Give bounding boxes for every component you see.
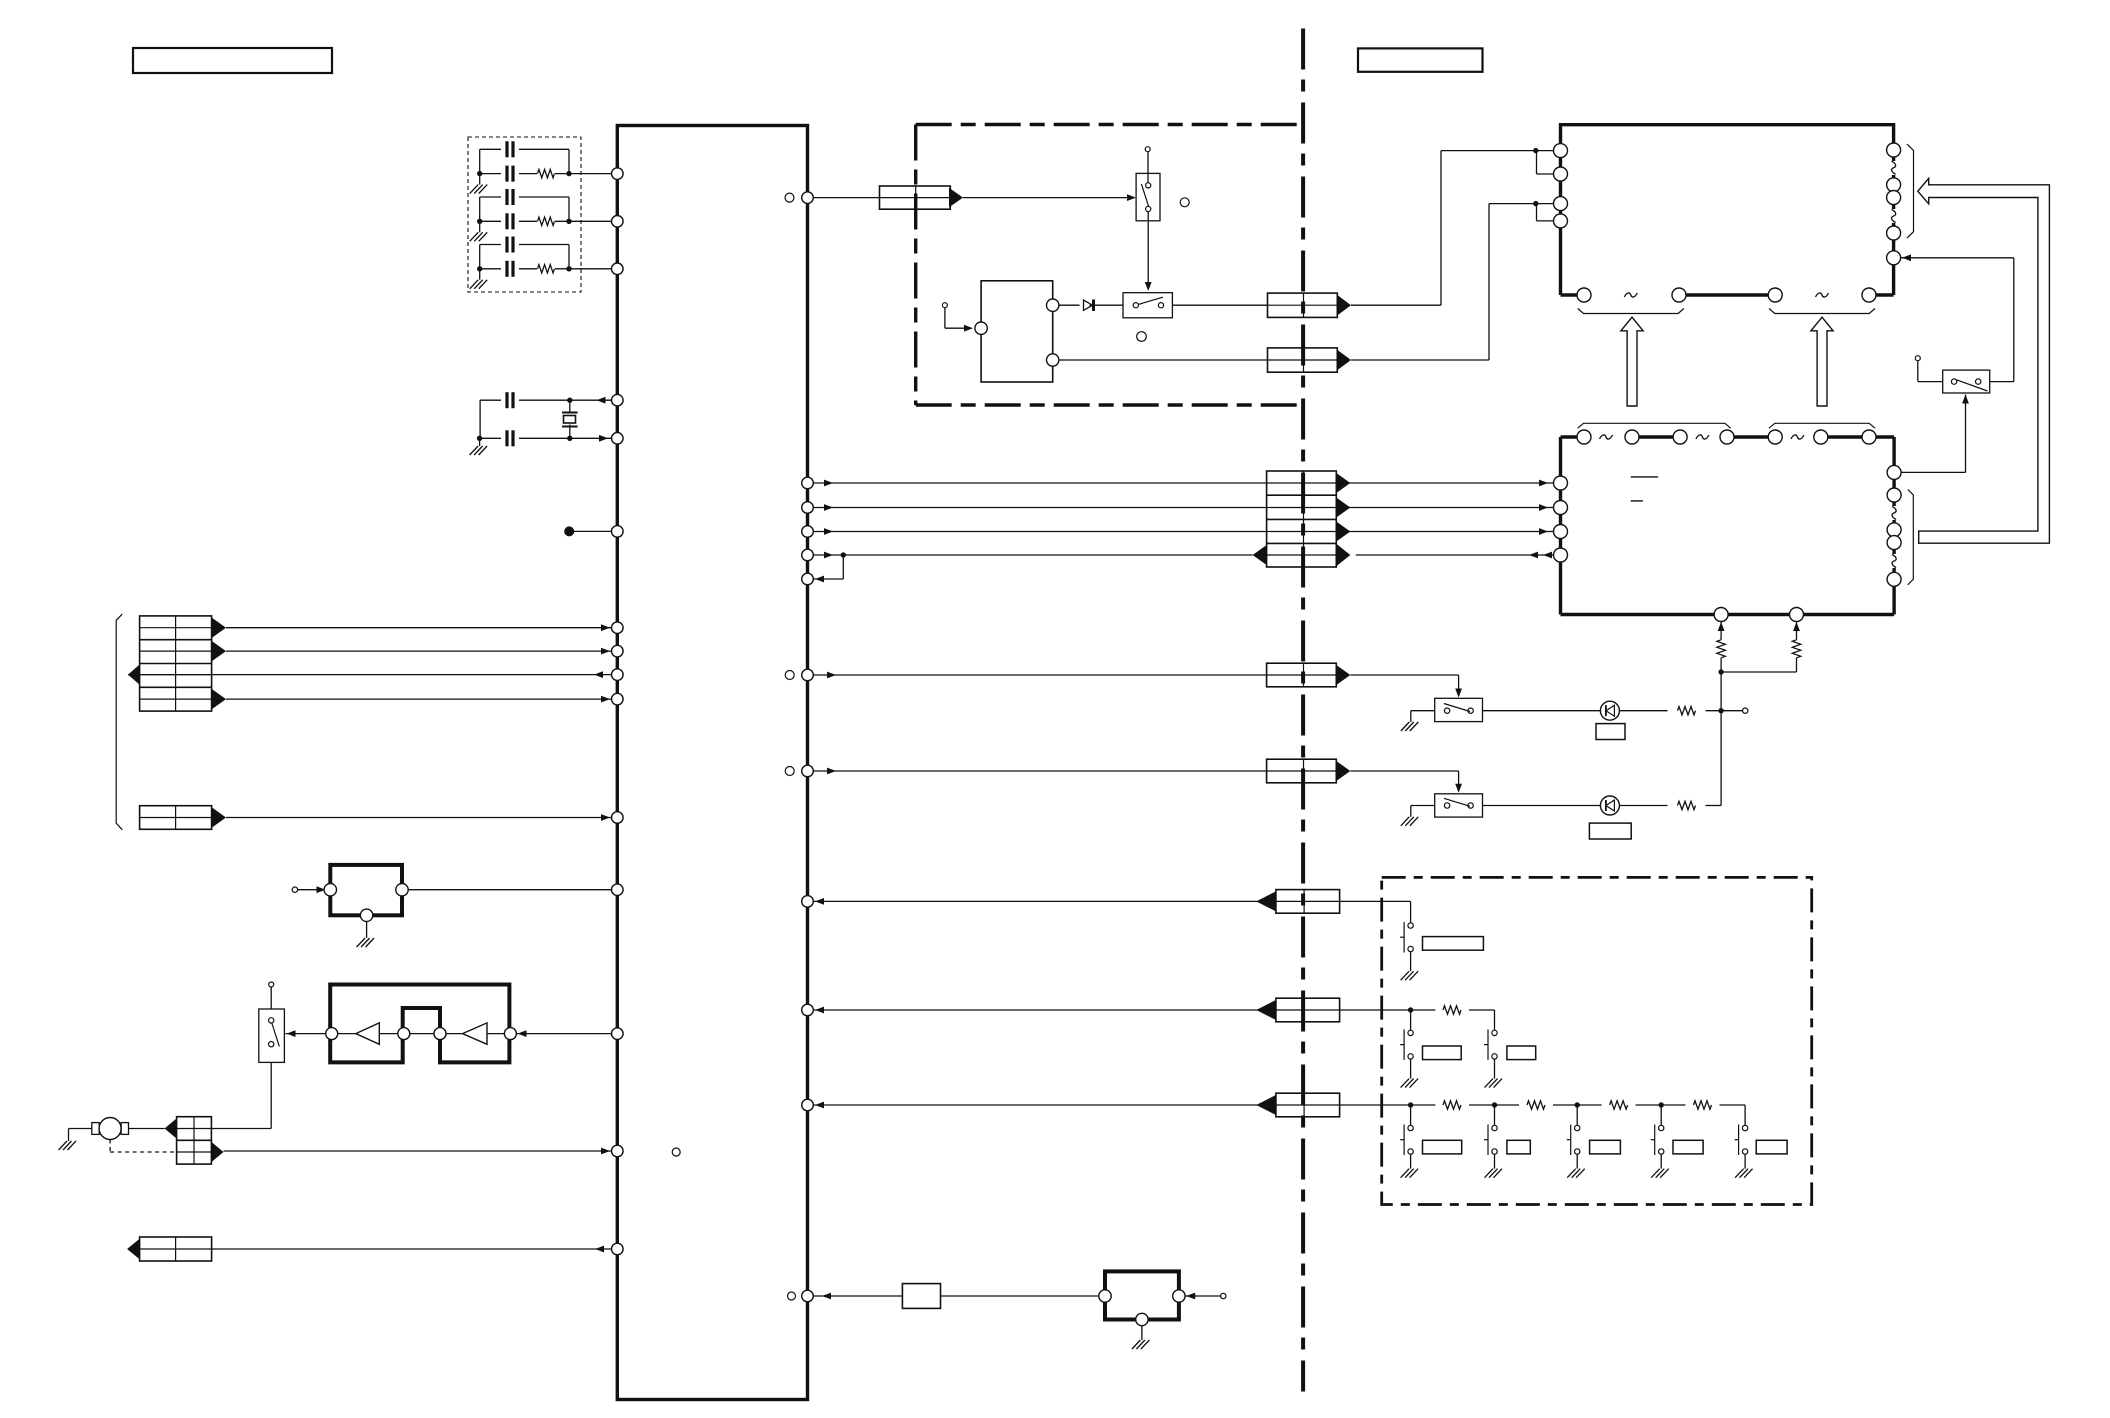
wire cn1d xyxy=(226,698,611,700)
connector CN1 row3 line xyxy=(140,674,212,676)
wire swA2 xyxy=(963,197,1134,199)
ground xtal xyxy=(470,446,479,455)
wire bz3 xyxy=(1185,1295,1221,1297)
wire S1 top xyxy=(270,987,272,1009)
resistor R2 xyxy=(538,217,555,225)
switch SW4 box xyxy=(1435,698,1483,721)
wire keyC3 gnd xyxy=(1576,1154,1578,1169)
terminal S1 xyxy=(269,982,274,987)
tilde dsp2 r2 xyxy=(1892,555,1896,568)
connector CN7 xyxy=(1268,348,1338,372)
label LED2 xyxy=(1589,823,1631,839)
bracket dsp2 top2 xyxy=(1769,423,1875,428)
connector CN1 tri4 xyxy=(212,689,226,709)
reset pin in xyxy=(324,884,336,896)
reset pin gnd xyxy=(360,909,372,921)
label SC2 xyxy=(1507,1140,1530,1154)
display DSP2 pin bb xyxy=(1790,608,1804,622)
wire sw5 gnd xyxy=(1411,805,1435,807)
wire disp1 b xyxy=(1351,359,1489,361)
hollow arrow band xyxy=(1918,178,2050,543)
connector CN8 tri2 xyxy=(1336,498,1350,518)
ground buzzer xyxy=(1132,1340,1141,1349)
connector CN8 tri3 xyxy=(1336,522,1350,542)
terminal sw3 xyxy=(1915,356,1920,361)
switch SW2 box xyxy=(1123,293,1172,318)
driver pin 3 xyxy=(434,1028,446,1040)
display DSP1 pin rb xyxy=(1887,178,1901,192)
display DSP2 pin t1 xyxy=(1577,430,1591,444)
MCU pin keyB xyxy=(802,1004,814,1016)
wire cn3 row1 to S1 xyxy=(211,1128,271,1130)
display DSP1 pin rd xyxy=(1887,226,1901,240)
display DSP2 pin t6 xyxy=(1814,430,1828,444)
bracket dsp2 right xyxy=(1908,490,1914,585)
switch SW3 contacts xyxy=(1951,379,1956,384)
label SC4 xyxy=(1673,1140,1703,1154)
ground rc1 xyxy=(470,185,479,194)
wire dsp1 re xyxy=(1901,257,2014,259)
relay pin o1 xyxy=(1047,299,1059,311)
wire sw5 out xyxy=(1483,805,1601,807)
tilde dsp1 r1 xyxy=(1892,161,1896,174)
MCU pin cn1-1 xyxy=(612,622,624,634)
keypad dashdot box xyxy=(1382,877,1812,1204)
wire keyC4 gnd xyxy=(1660,1154,1662,1169)
MCU U1 box xyxy=(617,126,807,1400)
capacitor C5 xyxy=(505,237,508,253)
connector CN8 tri4 xyxy=(1336,544,1350,567)
MCU pin cn2 xyxy=(612,812,624,824)
mcu inner circle s1 xyxy=(785,671,794,680)
ground sw4 xyxy=(1401,722,1410,731)
switch SW5 contacts xyxy=(1444,803,1449,808)
connector CN9 xyxy=(1267,663,1337,687)
MCU pin swrow2 xyxy=(802,765,814,777)
wire bl res1 xyxy=(1720,621,1722,640)
ground keyC3 xyxy=(1567,1169,1576,1178)
tilde dsp2 t3 xyxy=(1791,435,1804,439)
connector CN3 row2 xyxy=(177,1151,212,1153)
mcu inner circle a xyxy=(785,193,794,202)
crystal X1 xyxy=(562,412,578,414)
terminal reset xyxy=(292,887,297,892)
MCU pin lcd4 xyxy=(802,549,814,561)
connector CN10 xyxy=(1267,759,1337,783)
wire relay o1 xyxy=(1059,304,1080,306)
wire keyA b xyxy=(1340,900,1411,902)
label box xyxy=(1358,48,1483,71)
bracket dsp1 right xyxy=(1907,144,1914,238)
key SB2 xyxy=(1492,1030,1497,1035)
connector CN8 tri1 xyxy=(1336,473,1350,493)
wire sw4 out xyxy=(1483,710,1601,712)
wire disp1 a stub xyxy=(1536,151,1538,174)
wire motor gnd xyxy=(69,1128,92,1130)
connector CN1 tri2 xyxy=(212,641,226,661)
motor M1 xyxy=(99,1118,121,1140)
wire keyC2 gnd xyxy=(1494,1154,1496,1169)
ground keyB1 xyxy=(1401,1079,1410,1088)
connector CN1 tri1 xyxy=(212,618,226,638)
display DSP2 pin t3 xyxy=(1673,430,1687,444)
display DSP2 pin t7 xyxy=(1862,430,1876,444)
display DSP1 box xyxy=(1561,125,1894,295)
MCU pin lcd1 xyxy=(802,477,814,489)
wire keyC chain xyxy=(1340,1104,1436,1106)
MCU pin swA xyxy=(802,192,814,204)
label SC5 xyxy=(1756,1140,1787,1154)
title box xyxy=(133,48,332,73)
resistor R1 xyxy=(538,169,555,177)
resistor R3 xyxy=(538,265,555,273)
display DSP1 pin bd xyxy=(1862,288,1876,302)
MCU pin cn1-2 xyxy=(612,645,624,657)
resistor R8 xyxy=(1678,707,1696,715)
key SC5 xyxy=(1742,1125,1747,1130)
display DSP2 pin re xyxy=(1887,572,1901,586)
display DSP2 pin rb xyxy=(1887,488,1901,502)
capacitor C2 xyxy=(505,166,508,182)
connector CN3 body xyxy=(177,1117,212,1164)
wire led1 r xyxy=(1619,710,1667,712)
mcu inner circle m xyxy=(672,1148,680,1156)
up arrow 2 xyxy=(1811,317,1833,406)
ground keyC5 xyxy=(1735,1169,1744,1178)
mark dsp2 1 xyxy=(1631,476,1659,478)
key SC1 xyxy=(1408,1125,1413,1130)
wire bz gnd xyxy=(1141,1326,1143,1340)
driver U3 outline xyxy=(330,985,509,1063)
display DSP1 pin lc xyxy=(1554,197,1568,211)
label SB2 xyxy=(1507,1046,1536,1060)
MCU pin cn4 xyxy=(612,1243,624,1255)
terminal bz xyxy=(1221,1293,1226,1298)
tilde dsp1 r2 xyxy=(1892,210,1896,223)
MCU pin lcd5 xyxy=(802,573,814,585)
wire sw2 out xyxy=(1172,304,1267,306)
ground rc3 xyxy=(470,280,479,289)
MCU pin lcd3 xyxy=(802,526,814,538)
ground keyA xyxy=(1401,971,1410,980)
MCU pin motor xyxy=(612,1145,624,1157)
resistor R10 xyxy=(1443,1006,1461,1014)
capacitor C3 xyxy=(505,189,508,205)
ground rc2 xyxy=(470,232,479,241)
test pad stub xyxy=(564,526,574,536)
MCU pin rc3 xyxy=(612,263,624,275)
arrow xtal out xyxy=(597,397,606,404)
display DSP2 pin ra xyxy=(1887,465,1901,479)
bracket dsp1 bot2 xyxy=(1769,309,1875,314)
wire keyB d xyxy=(1410,1010,1412,1030)
key SB1 xyxy=(1408,1030,1413,1035)
wire keyC drop2 xyxy=(1494,1105,1496,1125)
connector CN8 body xyxy=(1267,471,1337,567)
display DSP2 pin lc xyxy=(1554,525,1568,539)
connector CN12 xyxy=(1276,998,1340,1022)
connector CN6 xyxy=(1268,293,1338,317)
wire bl res1b xyxy=(1720,658,1722,672)
display DSP2 pin ba xyxy=(1714,608,1728,622)
switch SW5 box xyxy=(1435,794,1483,817)
display DSP2 pin t4 xyxy=(1720,430,1734,444)
key SC3 xyxy=(1575,1125,1580,1130)
MCU pin cn1-4 xyxy=(612,693,624,705)
capacitor C6 xyxy=(505,261,508,277)
ground keyC4 xyxy=(1651,1169,1660,1178)
wire cn1a xyxy=(226,627,611,629)
MCU pin reset xyxy=(612,884,624,896)
wire bz1 xyxy=(813,1295,902,1297)
wire keyC drop5 xyxy=(1744,1105,1746,1125)
MCU pin bz xyxy=(802,1290,814,1302)
driver pin 2 xyxy=(398,1028,410,1040)
MCU pin xtal2 xyxy=(612,433,624,445)
label SA1 xyxy=(1423,937,1484,951)
wire lcd4 xyxy=(813,554,1252,556)
RC filter dashed box xyxy=(468,137,581,292)
wire keyA gnd xyxy=(1410,952,1412,972)
connector CN8 row3 line xyxy=(1267,531,1337,533)
connector CN8 row4 line xyxy=(1267,554,1337,556)
wire relay in xyxy=(944,308,946,329)
connector CN8 row1 line xyxy=(1267,482,1337,484)
display DSP2 pin ld xyxy=(1554,548,1568,562)
connector CN1 body xyxy=(140,616,212,711)
relay pin in xyxy=(975,322,987,334)
wire keyC drop3 xyxy=(1576,1105,1578,1125)
switch SW1 box xyxy=(1136,173,1160,220)
label SC1 xyxy=(1423,1140,1462,1154)
relay pin o2 xyxy=(1047,354,1059,366)
wire sw3 in xyxy=(1917,361,1919,382)
wire lcd4 branch xyxy=(842,555,844,579)
resistor R5 box xyxy=(902,1284,940,1309)
MCU pin rc1 xyxy=(612,168,624,180)
inverter A2 xyxy=(463,1023,488,1044)
tilde dsp2 r1 xyxy=(1892,506,1896,519)
wire sw4 gnd xyxy=(1411,710,1435,712)
wire keyC drop1 xyxy=(1410,1105,1412,1125)
switch SW2 contacts xyxy=(1133,303,1138,308)
wire S1 bottom xyxy=(270,1062,272,1128)
MCU pin lcd2 xyxy=(802,502,814,514)
capacitor C7 xyxy=(505,392,508,408)
wire xtal net xyxy=(480,399,501,401)
wire led2 node xyxy=(1706,805,1722,807)
ground keyB2 xyxy=(1485,1079,1494,1088)
key SC4 xyxy=(1659,1125,1664,1130)
display DSP2 pin rd xyxy=(1887,536,1901,550)
switch SW1 contacts xyxy=(1146,183,1151,188)
wire keyB1 gnd xyxy=(1410,1059,1412,1079)
wire swA1 xyxy=(813,197,879,199)
wire swrow2 a xyxy=(813,770,1266,772)
label LED1 xyxy=(1596,724,1625,740)
wire diode to sw2 xyxy=(1090,304,1124,306)
switch S1 box xyxy=(259,1009,285,1062)
wire lcd2 xyxy=(813,507,1266,509)
MCU pin test xyxy=(612,526,624,538)
floating circle sw2 xyxy=(1137,332,1147,342)
connector CN5 xyxy=(880,186,951,209)
display DSP1 pin bc xyxy=(1768,288,1782,302)
mcu inner circle bz xyxy=(788,1292,796,1300)
driver pin 1 xyxy=(326,1028,338,1040)
MCU pin rc2 xyxy=(612,216,624,228)
connector CN8 row2 line xyxy=(1267,507,1337,509)
tilde dsp1 b2 xyxy=(1816,293,1829,297)
wire keyA a xyxy=(813,900,1276,902)
connector CN1 tri3 xyxy=(128,665,140,685)
capacitor C4 xyxy=(505,213,508,229)
relay K1 box xyxy=(981,281,1053,382)
wire bl vertical xyxy=(1720,672,1722,711)
connector CN2 xyxy=(140,806,212,830)
switch SW3 box xyxy=(1943,370,1990,393)
display DSP1 pin ra xyxy=(1887,143,1901,157)
wire keyB c xyxy=(1469,1009,1495,1011)
MCU pin drv xyxy=(612,1028,624,1040)
photo LED2 xyxy=(1600,796,1619,815)
resistor R7 xyxy=(1792,640,1800,658)
wire bl res2b xyxy=(1796,658,1798,672)
capacitor C8 xyxy=(505,430,508,446)
wire swrow2 b xyxy=(1350,770,1458,772)
wire bz2 xyxy=(941,1295,1100,1297)
up arrow 1 xyxy=(1621,317,1643,406)
display DSP1 pin la xyxy=(1554,144,1568,158)
wire cn2 xyxy=(226,817,611,819)
display DSP2 pin t2 xyxy=(1625,430,1639,444)
wire relay o2 out xyxy=(1059,359,1268,361)
wire drv internal xyxy=(338,1033,356,1035)
buzzer pin gnd xyxy=(1136,1313,1148,1325)
connector CN4 xyxy=(140,1237,212,1261)
key SA1 xyxy=(1408,923,1413,928)
bracket dsp1 bot1 xyxy=(1578,309,1684,314)
connector CN1 row2 line xyxy=(140,650,212,652)
mcu inner circle s2 xyxy=(785,767,794,776)
wire lcd1 xyxy=(813,482,1266,484)
switch S1 contacts xyxy=(269,1018,274,1023)
ground motor xyxy=(59,1141,68,1150)
diode D1 xyxy=(1084,300,1093,310)
wire disp1 a xyxy=(1351,304,1441,306)
tilde dsp1 b1 xyxy=(1624,293,1637,297)
display DSP1 pin lb xyxy=(1554,167,1568,181)
terminal bl xyxy=(1743,708,1748,713)
floating circle sw1 xyxy=(1180,198,1189,207)
wire reset in xyxy=(298,889,324,891)
buzzer pin r xyxy=(1173,1290,1185,1302)
connector CN1 row1 line xyxy=(140,627,212,629)
capacitor C1 xyxy=(505,141,508,157)
buzzer BZ1 box xyxy=(1105,1271,1179,1319)
display DSP1 pin ba xyxy=(1577,288,1591,302)
resistor R9 xyxy=(1678,801,1696,809)
photo LED1 xyxy=(1600,701,1619,720)
wire led1 node xyxy=(1706,710,1743,712)
display DSP2 box xyxy=(1559,437,1562,615)
MCU pin xtal1 xyxy=(612,394,624,406)
MCU pin swrow1 xyxy=(802,669,814,681)
connector CN1 row4 line xyxy=(140,698,212,700)
wire keyB a xyxy=(813,1009,1276,1011)
key SC2 xyxy=(1492,1125,1497,1130)
bracket CN group xyxy=(116,614,122,830)
label SB1 xyxy=(1423,1046,1462,1060)
tilde dsp2 t2 xyxy=(1696,435,1709,439)
label SC3 xyxy=(1590,1140,1621,1154)
wire driver to switch xyxy=(286,1033,326,1035)
wire cn4 xyxy=(212,1248,612,1250)
wire cn3 row2 to MCU xyxy=(224,1150,612,1152)
wire keyC5 gnd xyxy=(1744,1154,1746,1169)
wire keyB b xyxy=(1340,1009,1411,1011)
driver pin 4 xyxy=(504,1028,516,1040)
wire mcu to driver xyxy=(516,1033,611,1035)
wire keyC drop4 xyxy=(1660,1105,1662,1125)
wire swrow1 a xyxy=(813,674,1266,676)
display DSP2 pin lb xyxy=(1554,501,1568,515)
wire sw1 to sw2 xyxy=(1147,212,1149,288)
ground sw5 xyxy=(1401,817,1410,826)
wire cn1c xyxy=(128,674,611,676)
inverter A1 xyxy=(356,1023,380,1044)
terminal sw1 top xyxy=(1145,147,1150,152)
display DSP1 pin rc xyxy=(1887,191,1901,205)
display DSP1 pin bb xyxy=(1672,288,1686,302)
connector CN13 xyxy=(1276,1093,1340,1117)
mark dsp2 2 xyxy=(1631,500,1643,502)
wire swrow1 b xyxy=(1350,674,1458,676)
wire dsp2 to sw3 xyxy=(1894,471,1965,473)
wire lcd3 xyxy=(813,531,1266,533)
tilde dsp2 t1 xyxy=(1600,435,1613,439)
display DSP2 pin rc xyxy=(1887,523,1901,537)
arrow xtal in xyxy=(599,435,608,442)
wire cn1b xyxy=(226,650,611,652)
page split line xyxy=(1301,29,1305,1392)
buzzer pin l xyxy=(1099,1290,1111,1302)
ground keyC2 xyxy=(1485,1169,1494,1178)
reset IC U2 xyxy=(330,865,402,915)
wire bl res2 xyxy=(1796,621,1798,640)
display DSP1 pin ld xyxy=(1554,214,1568,228)
wire reset gnd xyxy=(366,922,368,939)
wire keyC a xyxy=(813,1104,1276,1106)
bracket dsp2 top1 xyxy=(1578,423,1731,428)
power block dashdot box xyxy=(914,125,917,406)
wire motor to cn3 xyxy=(129,1128,165,1130)
wire led2 r xyxy=(1619,805,1667,807)
wire keyC1 gnd xyxy=(1410,1154,1412,1169)
wire reset out xyxy=(408,889,611,891)
switch SW4 contacts xyxy=(1444,708,1449,713)
connector CN3 row1 xyxy=(177,1128,212,1130)
MCU pin cn1-3 xyxy=(612,669,624,681)
display DSP2 pin la xyxy=(1554,476,1568,490)
wire motor sense dashed xyxy=(109,1140,111,1153)
display DSP2 pin t5 xyxy=(1768,430,1782,444)
MCU pin keyC xyxy=(802,1099,814,1111)
reset pin out xyxy=(396,884,408,896)
wire sw1 top xyxy=(1147,152,1149,183)
ground keyC1 xyxy=(1401,1169,1410,1178)
ground reset xyxy=(357,938,366,947)
